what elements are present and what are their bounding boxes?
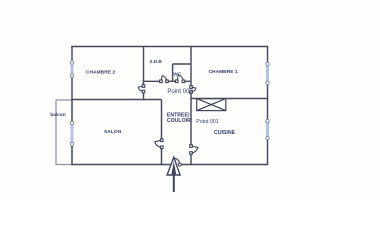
svg-text:CHAMBRE 2: CHAMBRE 2 [86, 70, 115, 76]
door salon leaf and arc [155, 140, 162, 147]
svg-text:WC: WC [173, 71, 181, 76]
wall sdb bottom [143, 80, 191, 82]
svg-text:CUISINE: CUISINE [214, 130, 236, 136]
right wall segments [267, 47, 269, 166]
wall wc top [173, 63, 191, 65]
middle wall salon top [71, 99, 161, 101]
svg-text:Point 001: Point 001 [196, 119, 218, 125]
north arrow [167, 157, 180, 192]
wall couloir left [161, 100, 163, 166]
svg-text:S.D.B: S.D.B [150, 59, 163, 64]
balcony rectangle [56, 100, 72, 165]
svg-text:CHAMBRE 1: CHAMBRE 1 [209, 69, 238, 75]
svg-text:balcon: balcon [50, 112, 66, 118]
door chambre2 leaf and arc [138, 86, 143, 92]
window circles left wall [70, 61, 269, 146]
window W1 left wall chambre2 [71, 61, 74, 78]
door cuisine leaf and arc [191, 146, 198, 153]
wall chambre1/cuisine [191, 98, 268, 100]
window W3 right wall chambre1 [266, 62, 269, 85]
wall chambre2/sdb divider [143, 47, 145, 101]
wall wc left [172, 64, 174, 81]
door entrance leaf and arc [174, 158, 180, 164]
svg-text:SALON: SALON [104, 129, 122, 135]
top wall [71, 46, 268, 48]
window circles right wall [266, 62, 269, 65]
door entrance latch circle [178, 163, 181, 166]
svg-text:Point 002: Point 002 [167, 89, 193, 95]
window W2 left wall salon [71, 121, 74, 146]
door hinge squares [142, 80, 192, 154]
window W4 right wall cuisine [266, 119, 269, 140]
placard crossed box [197, 99, 226, 111]
left wall segments [71, 47, 73, 166]
wall sdb/chambre1 divider and cuisine left [190, 47, 192, 166]
door sdb leaf and arc [161, 76, 167, 82]
door chambre1 leaf and arc [191, 87, 196, 92]
door wc leaf and arc [177, 75, 184, 81]
svg-text:COULOIR: COULOIR [167, 118, 191, 124]
bottom wall [72, 164, 268, 166]
